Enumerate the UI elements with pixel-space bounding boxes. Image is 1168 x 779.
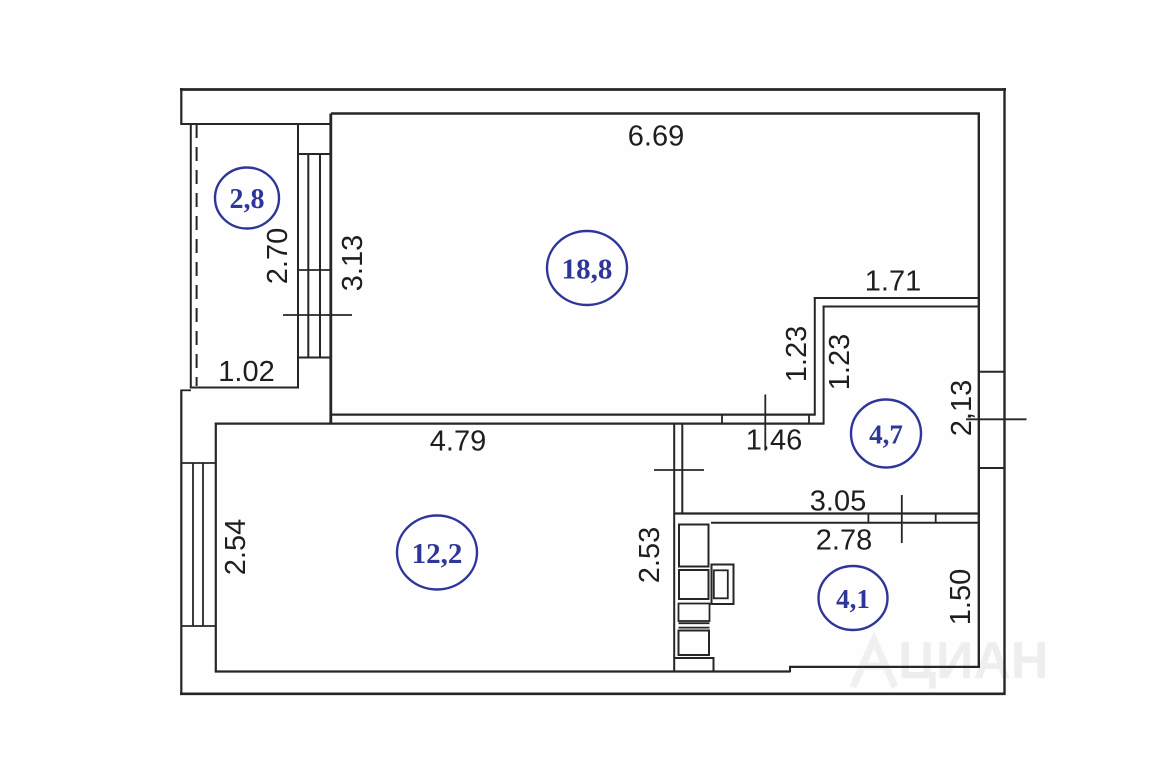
bathroom bottom jog vertical: [713, 657, 715, 672]
left window inner line 2: [202, 463, 204, 626]
left window bottom sill: [181, 625, 215, 627]
svg-text:2.70: 2.70: [262, 228, 294, 284]
svg-text:1.71: 1.71: [865, 266, 921, 298]
niche wall outer vertical: [814, 297, 816, 416]
dimension tick bathroom wall small left: [867, 514, 869, 524]
interior wall lower line: [215, 423, 825, 425]
room circle 18,8: [547, 231, 627, 305]
svg-text:1.23: 1.23: [824, 334, 856, 390]
outer wall left lower segment: [180, 390, 182, 696]
dimension tick on balcony window: [283, 314, 352, 316]
living room bottom wall upper line: [330, 414, 816, 416]
svg-text:2.53: 2.53: [634, 527, 666, 583]
fixture sink: [679, 570, 709, 599]
svg-text:3.05: 3.05: [810, 486, 866, 518]
balcony window middle rail: [298, 269, 332, 271]
svg-text:6.69: 6.69: [628, 121, 684, 153]
fixture double line lower: [679, 627, 710, 629]
living room left wall: [329, 114, 332, 425]
svg-text:18,8: 18,8: [562, 254, 613, 286]
bathroom wall lower line: [711, 522, 979, 524]
room 12.2 bottom wall: [215, 670, 790, 672]
watermark logo: [853, 640, 895, 687]
outer wall top: [180, 88, 1006, 91]
left window top sill: [181, 462, 215, 464]
dimension tick bathroom wall small right: [935, 514, 937, 524]
niche wall inner horizontal: [823, 306, 980, 308]
outer wall bottom: [180, 692, 1006, 695]
right window top sill: [979, 371, 1006, 373]
balcony bottom slab: [190, 387, 299, 389]
partition wall corridor side line: [681, 424, 683, 514]
right window bottom sill: [979, 467, 1006, 469]
bathroom bottom inner line: [675, 657, 714, 659]
dimension tick partition wall: [654, 469, 704, 471]
partition wall 12.2 side line: [673, 424, 675, 672]
svg-text:2,8: 2,8: [230, 184, 265, 215]
outer wall right: [1003, 88, 1005, 695]
svg-text:1.46: 1.46: [746, 425, 802, 457]
room circle 4,1: [819, 566, 888, 630]
svg-text:2.78: 2.78: [816, 525, 872, 557]
balcony window inner line 2: [319, 154, 321, 358]
top wall inner line over balcony: [181, 123, 331, 125]
fixture double line upper: [679, 622, 710, 624]
niche wall inner vertical: [823, 306, 825, 425]
room 12.2 left wall: [215, 423, 217, 673]
living room right inner wall: [978, 113, 980, 668]
balcony window inner line 1: [307, 154, 309, 358]
bottom step vertical: [789, 667, 791, 673]
svg-text:2.54: 2.54: [220, 519, 252, 575]
svg-text:4.79: 4.79: [430, 426, 486, 458]
room circle 4,7: [851, 400, 921, 468]
top wall inner line over living room: [331, 112, 980, 114]
balcony glazing dashed line: [196, 124, 198, 386]
niche wall outer horizontal: [814, 297, 980, 299]
balcony left wall solid: [190, 124, 192, 389]
room circle 2,8: [215, 168, 279, 229]
toilet bowl inner: [714, 570, 728, 598]
dimension tick corridor small right: [808, 415, 810, 424]
svg-text:1.23: 1.23: [781, 326, 813, 382]
dimension tick corridor large: [764, 395, 766, 451]
svg-text:4,1: 4,1: [836, 584, 870, 614]
dimension tick bathroom wall large: [901, 495, 903, 543]
bathroom wall upper line: [674, 512, 979, 514]
svg-text:12,2: 12,2: [412, 538, 463, 570]
outer wall left upper segment: [180, 88, 182, 125]
svg-text:2,13: 2,13: [946, 380, 978, 436]
balcony window top sill: [298, 153, 332, 155]
bottom inner line right part: [789, 666, 980, 668]
outer wall stub at balcony bottom: [181, 389, 191, 391]
svg-text:1.02: 1.02: [218, 356, 274, 388]
room circle 12,2: [397, 516, 477, 590]
fixture washing machine: [679, 525, 709, 567]
svg-text:1.50: 1.50: [945, 569, 977, 625]
balcony window bottom sill: [298, 357, 332, 359]
toilet tank outer: [712, 565, 734, 605]
dimension tick on right window: [966, 418, 1027, 420]
svg-text:4,7: 4,7: [869, 420, 903, 450]
dimension tick corridor small left: [721, 415, 723, 424]
left window inner line 1: [192, 463, 194, 626]
balcony right wall / window left jamb: [297, 124, 299, 389]
svg-text:3.13: 3.13: [337, 235, 369, 291]
fixture shelf: [679, 604, 710, 622]
svg-text:ЦИАН: ЦИАН: [898, 632, 1048, 690]
fixture cabinet: [679, 631, 710, 656]
